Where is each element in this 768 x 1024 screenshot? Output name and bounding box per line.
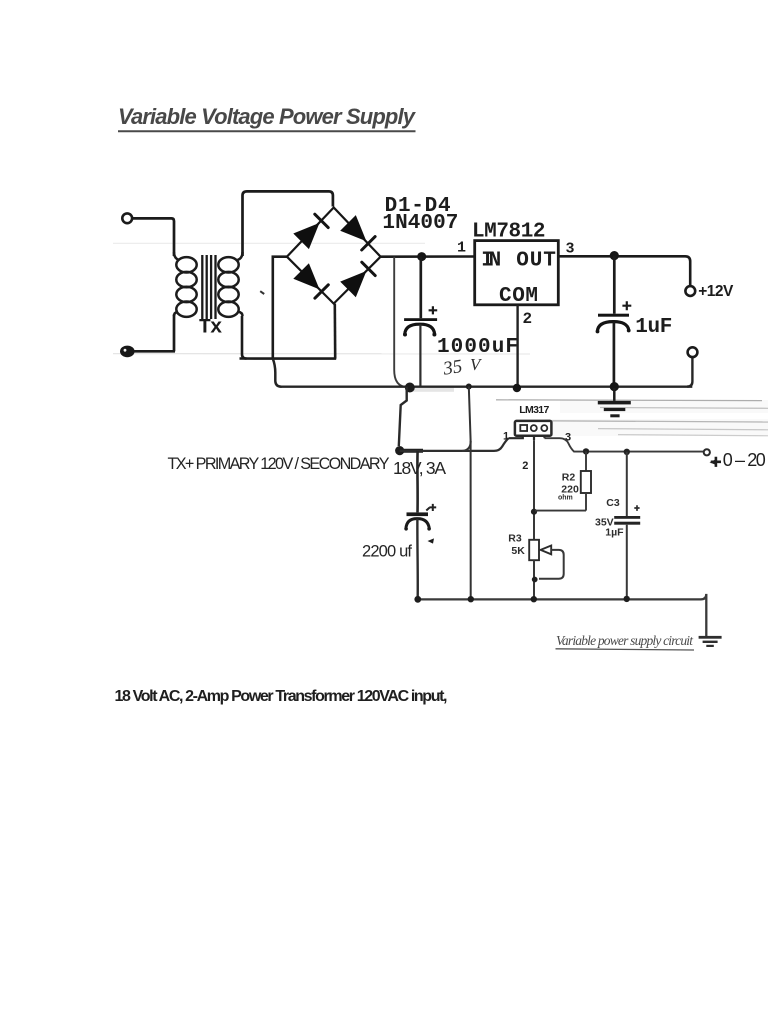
svg-text:Variable power supply circuit: Variable power supply circuit: [556, 633, 694, 648]
svg-text:COM: COM: [499, 285, 538, 308]
wire node line A (bottom of bridge): [240, 357, 337, 360]
C2 plus sign: [622, 301, 631, 310]
node dot (COM at bus): [513, 384, 521, 392]
wire bridge right vertex to regulator input: [381, 255, 475, 258]
node dot R3 bottom: [531, 596, 537, 602]
node dot R2 top: [583, 448, 589, 454]
svg-text:ohm: ohm: [558, 494, 573, 501]
C4 bottom plate (curved): [406, 519, 429, 529]
R3 wiper arrow: [541, 546, 552, 555]
svg-text:5K: 5K: [511, 545, 525, 557]
svg-text:18 Volt AC, 2-Amp Power Transf: 18 Volt AC, 2-Amp Power Transformer 120V…: [115, 688, 448, 705]
C2 lead bottom: [613, 322, 616, 387]
plus mark before 0-20: [711, 457, 721, 467]
transformer Tx secondary winding: [218, 252, 242, 317]
capacitor C3 lead top: [626, 452, 628, 516]
C1 bottom plate (curved): [405, 324, 435, 334]
C3 lead bottom: [626, 525, 628, 599]
svg-text:1N4007: 1N4007: [382, 212, 458, 235]
wire left vertex branch down: [273, 257, 287, 359]
wire regulator output: [558, 256, 690, 286]
svg-text:2200 uf: 2200 uf: [362, 543, 412, 561]
regulator U2 LM317 package: [515, 421, 552, 440]
wire bridge bottom vertex down: [333, 304, 336, 359]
wire jog from line A down to ground bus: [273, 359, 282, 387]
riser joins line C curve: [462, 441, 471, 451]
svg-text:C3: C3: [606, 497, 620, 509]
C3 plus sign: [634, 505, 639, 511]
potentiometer R3 body: [529, 540, 539, 599]
svg-text:Variable Voltage Power Supply: Variable Voltage Power Supply: [118, 104, 417, 129]
capacitor C2 1uF lead top: [613, 256, 616, 314]
junction blob (bridge branch meets bus): [405, 383, 415, 393]
transformer Tx primary winding: [174, 252, 197, 317]
resistor R2: [535, 451, 591, 510]
caption: Variable power supply circuit: [556, 633, 695, 650]
C4 top plate: [407, 512, 429, 516]
terminal J1 (AC input top-left): [122, 213, 132, 223]
wire line C (input to LM317 pin1): [400, 438, 509, 451]
diode D4 (bottom-right): [340, 262, 375, 297]
LM317 pin3 wire to output line D: [545, 438, 707, 451]
node dot wiper return: [532, 577, 538, 583]
wire secondary top to bridge top: [243, 191, 333, 256]
node dot riser bottom: [468, 596, 474, 602]
svg-text:TX+ PRIMARY 120V / SECONDARY: TX+ PRIMARY 120V / SECONDARY: [168, 455, 390, 473]
diode D2 (top-right): [340, 215, 375, 250]
svg-text:Tx: Tx: [199, 316, 223, 339]
terminal J2 (AC input bottom-left): [120, 346, 135, 358]
node dot output: [610, 251, 619, 260]
C3 plates: [614, 516, 640, 519]
regulator U1 LM7812 box: [475, 241, 559, 305]
R3 wiper return wire: [539, 550, 564, 579]
svg-text:R2: R2: [562, 472, 576, 484]
node dot C3 bottom: [624, 596, 630, 602]
svg-text:OUT: OUT: [516, 249, 556, 272]
diode bridge diamond edges: [287, 208, 381, 304]
diode D3 (bottom-left): [293, 263, 328, 298]
output terminal (0-20): [704, 449, 710, 455]
title: Variable Voltage Power Supply: [118, 104, 417, 131]
terminal lower-right: [688, 347, 698, 357]
wire J1 to primary top: [132, 218, 174, 256]
primary winding lead: [173, 315, 176, 352]
wire ground riser (bus to bottom bus): [469, 387, 471, 600]
wire J2 to primary bottom: [134, 350, 175, 353]
svg-text:0 – 20: 0 – 20: [723, 450, 766, 470]
svg-text:2: 2: [523, 310, 533, 328]
svg-text:R3: R3: [508, 532, 522, 544]
ground symbol G1: [598, 388, 631, 417]
node dot C3 top: [624, 449, 630, 455]
C4 lead bottom: [416, 519, 419, 598]
node dot (C2/ground at bus): [610, 382, 619, 391]
svg-text:IN: IN: [481, 249, 501, 272]
COM lead down: [516, 305, 518, 388]
C4 plus mark: [426, 504, 436, 511]
C1 lead bottom: [419, 324, 421, 386]
C1 top plate: [404, 318, 437, 321]
svg-text:1µF: 1µF: [605, 526, 624, 538]
svg-text:1: 1: [503, 431, 509, 443]
wire zigzag bus to LM317 input node: [399, 387, 407, 446]
terminal +12V: [685, 286, 695, 296]
svg-text:1uF: 1uF: [635, 316, 672, 339]
wire bus to lower terminal: [687, 357, 692, 386]
svg-text:LM317: LM317: [519, 404, 549, 416]
svg-text:+12V: +12V: [698, 283, 734, 300]
svg-text:2: 2: [522, 460, 528, 472]
node dot pin2/R2: [531, 509, 537, 515]
LM317 pin2 lead down: [533, 440, 535, 540]
svg-text:1: 1: [457, 240, 466, 257]
C2 top plate: [598, 314, 629, 317]
wire right vertex branch down to ground bus: [394, 257, 404, 387]
junction blob 2200uF top node: [395, 446, 404, 455]
ground symbol G2: [699, 636, 722, 647]
transformer core: [202, 255, 215, 319]
scan artifact streaks: [113, 243, 768, 436]
C2 bottom plate (curved): [597, 322, 629, 332]
LM317 pin1 jog: [509, 436, 523, 439]
svg-text:LM7812: LM7812: [472, 221, 546, 244]
node dot input: [417, 252, 426, 261]
node dot (ground riser): [466, 384, 472, 390]
C1 plus sign: [429, 306, 438, 314]
svg-text:18V, 3A: 18V, 3A: [393, 458, 446, 478]
capacitor C1 1000uF lead top: [419, 257, 422, 319]
svg-text:35: 35: [441, 356, 464, 380]
diode D1 (top-left): [293, 214, 328, 249]
ground bus (line B): [281, 386, 692, 388]
node dot C4 bottom: [414, 596, 421, 603]
bottom ground bus: [418, 594, 707, 636]
capacitor C4 2200uF lead top: [416, 451, 419, 513]
wire secondary bottom lead: [242, 316, 247, 359]
C4 arrow mark: [428, 538, 435, 543]
